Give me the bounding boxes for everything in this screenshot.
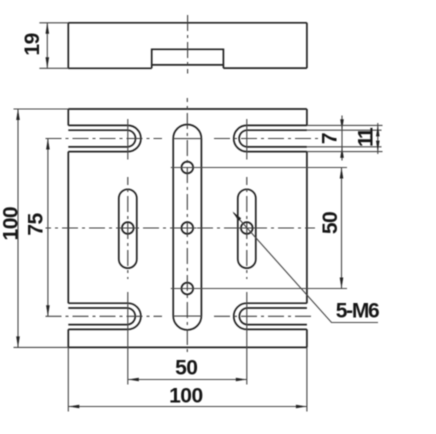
slot top-right inner <box>239 130 307 147</box>
hole bottom tick / ext line for dim 50 right <box>171 288 347 290</box>
side slot left <box>119 189 137 268</box>
slot bottom-left inner <box>68 308 135 325</box>
svg-text:100: 100 <box>0 207 23 241</box>
top row centerline left <box>46 138 163 140</box>
side slot right centerline <box>246 177 248 279</box>
dim 50 right arrows <box>340 168 344 179</box>
hole middle (tapped) <box>181 222 193 234</box>
hole right (tapped) <box>241 222 253 234</box>
hole top tick / ext line for dim 50 right <box>171 167 347 169</box>
slot top-left outer <box>68 125 141 151</box>
dim 7 arrows (outside) <box>340 119 344 130</box>
dim 100 bottom dimension line <box>68 406 307 408</box>
plate top edge <box>68 108 307 110</box>
side slot left centerline <box>127 177 129 279</box>
svg-text:100: 100 <box>169 384 203 407</box>
vertical centerline main <box>186 98 188 354</box>
dim 11 arrows <box>376 125 380 136</box>
center slot <box>173 125 201 330</box>
hole left tick <box>119 227 138 229</box>
dim 100 bottom extension lines <box>68 347 307 411</box>
side view step notch <box>152 49 224 68</box>
hole right tick <box>238 227 257 229</box>
dim 7 dimension line <box>341 116 343 161</box>
center slot top arc tick <box>173 138 201 140</box>
slot bottom-right outer <box>234 303 307 329</box>
horizontal centerline middle row <box>46 227 316 229</box>
slot top-right outer <box>234 125 307 151</box>
side view notch inner edge <box>152 64 224 66</box>
hole top (tapped) <box>181 162 193 174</box>
svg-text:7: 7 <box>319 133 342 144</box>
dim 75 dimension line <box>47 139 49 317</box>
bottom row centerline right <box>214 315 312 317</box>
svg-text:19: 19 <box>21 33 44 55</box>
svg-text:50: 50 <box>175 357 197 380</box>
dim 100 bottom arrows <box>68 405 79 409</box>
plate left edge segments <box>67 109 69 347</box>
side slot right <box>238 189 256 268</box>
top row centerline right <box>214 138 318 140</box>
dim 50 bottom extension lines <box>128 292 247 385</box>
svg-text:75: 75 <box>25 213 48 236</box>
svg-text:50: 50 <box>319 212 342 234</box>
center slot bottom arc tick <box>173 315 201 317</box>
slot top-right end tick <box>246 119 248 160</box>
dim 75 arrows <box>46 139 50 150</box>
dim 19 arrows <box>46 23 50 34</box>
plate right edge segments <box>306 109 308 347</box>
dim 11 extension lines <box>307 125 383 151</box>
dim 100 left arrows <box>16 109 20 120</box>
slot top-left inner <box>68 130 135 147</box>
slot top-left end tick <box>127 119 129 160</box>
plate bottom edge <box>68 346 307 348</box>
dim 50 bottom arrows <box>128 378 139 382</box>
dim 7 extension lines <box>307 130 382 147</box>
dim 19 extension lines <box>39 23 68 69</box>
dim 100 left dimension line <box>17 109 19 347</box>
leader arrowhead <box>233 212 242 221</box>
leader line 5-M6 <box>234 213 379 323</box>
svg-text:11: 11 <box>355 127 378 147</box>
dim 100 left extension lines <box>14 109 69 347</box>
dim 50 right dimension line <box>341 168 343 289</box>
slot bottom-left outer <box>68 303 141 329</box>
dim 50 bottom dimension line <box>128 379 247 381</box>
dim 11 dimension line <box>377 123 379 154</box>
bottom row centerline left <box>46 315 163 317</box>
side view vertical centerline <box>187 15 189 74</box>
hole middle tick <box>179 227 197 229</box>
dim 19 dimension line <box>46 23 48 69</box>
slot bottom-right inner <box>239 308 307 325</box>
side view outline <box>68 22 307 24</box>
hole left (tapped) <box>122 222 134 234</box>
hole bottom (tapped) <box>181 283 193 295</box>
svg-text:5-M6: 5-M6 <box>336 300 379 323</box>
